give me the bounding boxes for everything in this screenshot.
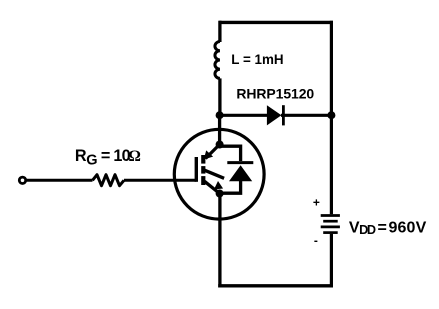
battery VDD plate 4 short xyxy=(323,231,338,234)
svg-text:Ω: Ω xyxy=(128,148,141,165)
wire diode node to transistor xyxy=(218,115,221,145)
transistor Q1 channel segment bottom xyxy=(201,176,205,185)
wire diode anode xyxy=(220,114,268,117)
transistor Q1 drain arrowhead xyxy=(204,150,213,159)
transistor Q1 gate bar xyxy=(195,157,198,182)
svg-text:L = 1mH: L = 1mH xyxy=(231,52,283,67)
svg-text:+: + xyxy=(313,195,320,209)
transistor Q1 source arrowhead xyxy=(214,181,223,190)
transistor Q1 body diagonal xyxy=(204,170,225,179)
wire diode cathode xyxy=(281,114,331,117)
transistor Q1 channel segment top xyxy=(201,155,205,164)
battery VDD plate 3 long xyxy=(321,226,340,229)
wire bottom horizontal xyxy=(218,284,333,287)
transistor Q1 channel segment middle xyxy=(201,166,205,174)
node source dot xyxy=(216,190,224,198)
wire gate input xyxy=(26,179,93,182)
battery VDD plate 2 short xyxy=(323,220,338,223)
wire left vertical top (corner to inductor) xyxy=(218,21,221,42)
wire resistor to gate xyxy=(124,179,196,182)
node drain dot xyxy=(216,141,224,149)
diode D1 cathode bar xyxy=(282,105,285,125)
body diode bottom connector xyxy=(220,181,241,193)
body diode cathode bar xyxy=(227,161,253,164)
body diode top connector xyxy=(220,146,241,161)
resistor RG zigzag xyxy=(93,175,125,186)
node junction dot right xyxy=(327,111,335,119)
svg-text:-: - xyxy=(314,233,318,247)
wire top horizontal xyxy=(219,21,333,24)
wire transistor source to bottom xyxy=(218,194,221,288)
wire right vertical upper xyxy=(330,21,333,215)
terminal input xyxy=(19,177,25,183)
wire inductor to diode node xyxy=(218,78,221,117)
battery VDD plate 1 long xyxy=(321,214,340,217)
svg-text:RHRP15120: RHRP15120 xyxy=(236,86,314,102)
diode D1 RHRP15120 triangle xyxy=(267,105,282,125)
transistor Q1 source diagonal xyxy=(205,181,220,193)
wire right vertical lower xyxy=(330,234,333,288)
node junction dot left xyxy=(216,111,224,119)
transistor Q1 drain diagonal xyxy=(206,147,218,159)
transistor Q1 circle xyxy=(174,129,264,219)
body diode triangle xyxy=(229,165,252,181)
inductor L1 coil xyxy=(215,42,220,79)
